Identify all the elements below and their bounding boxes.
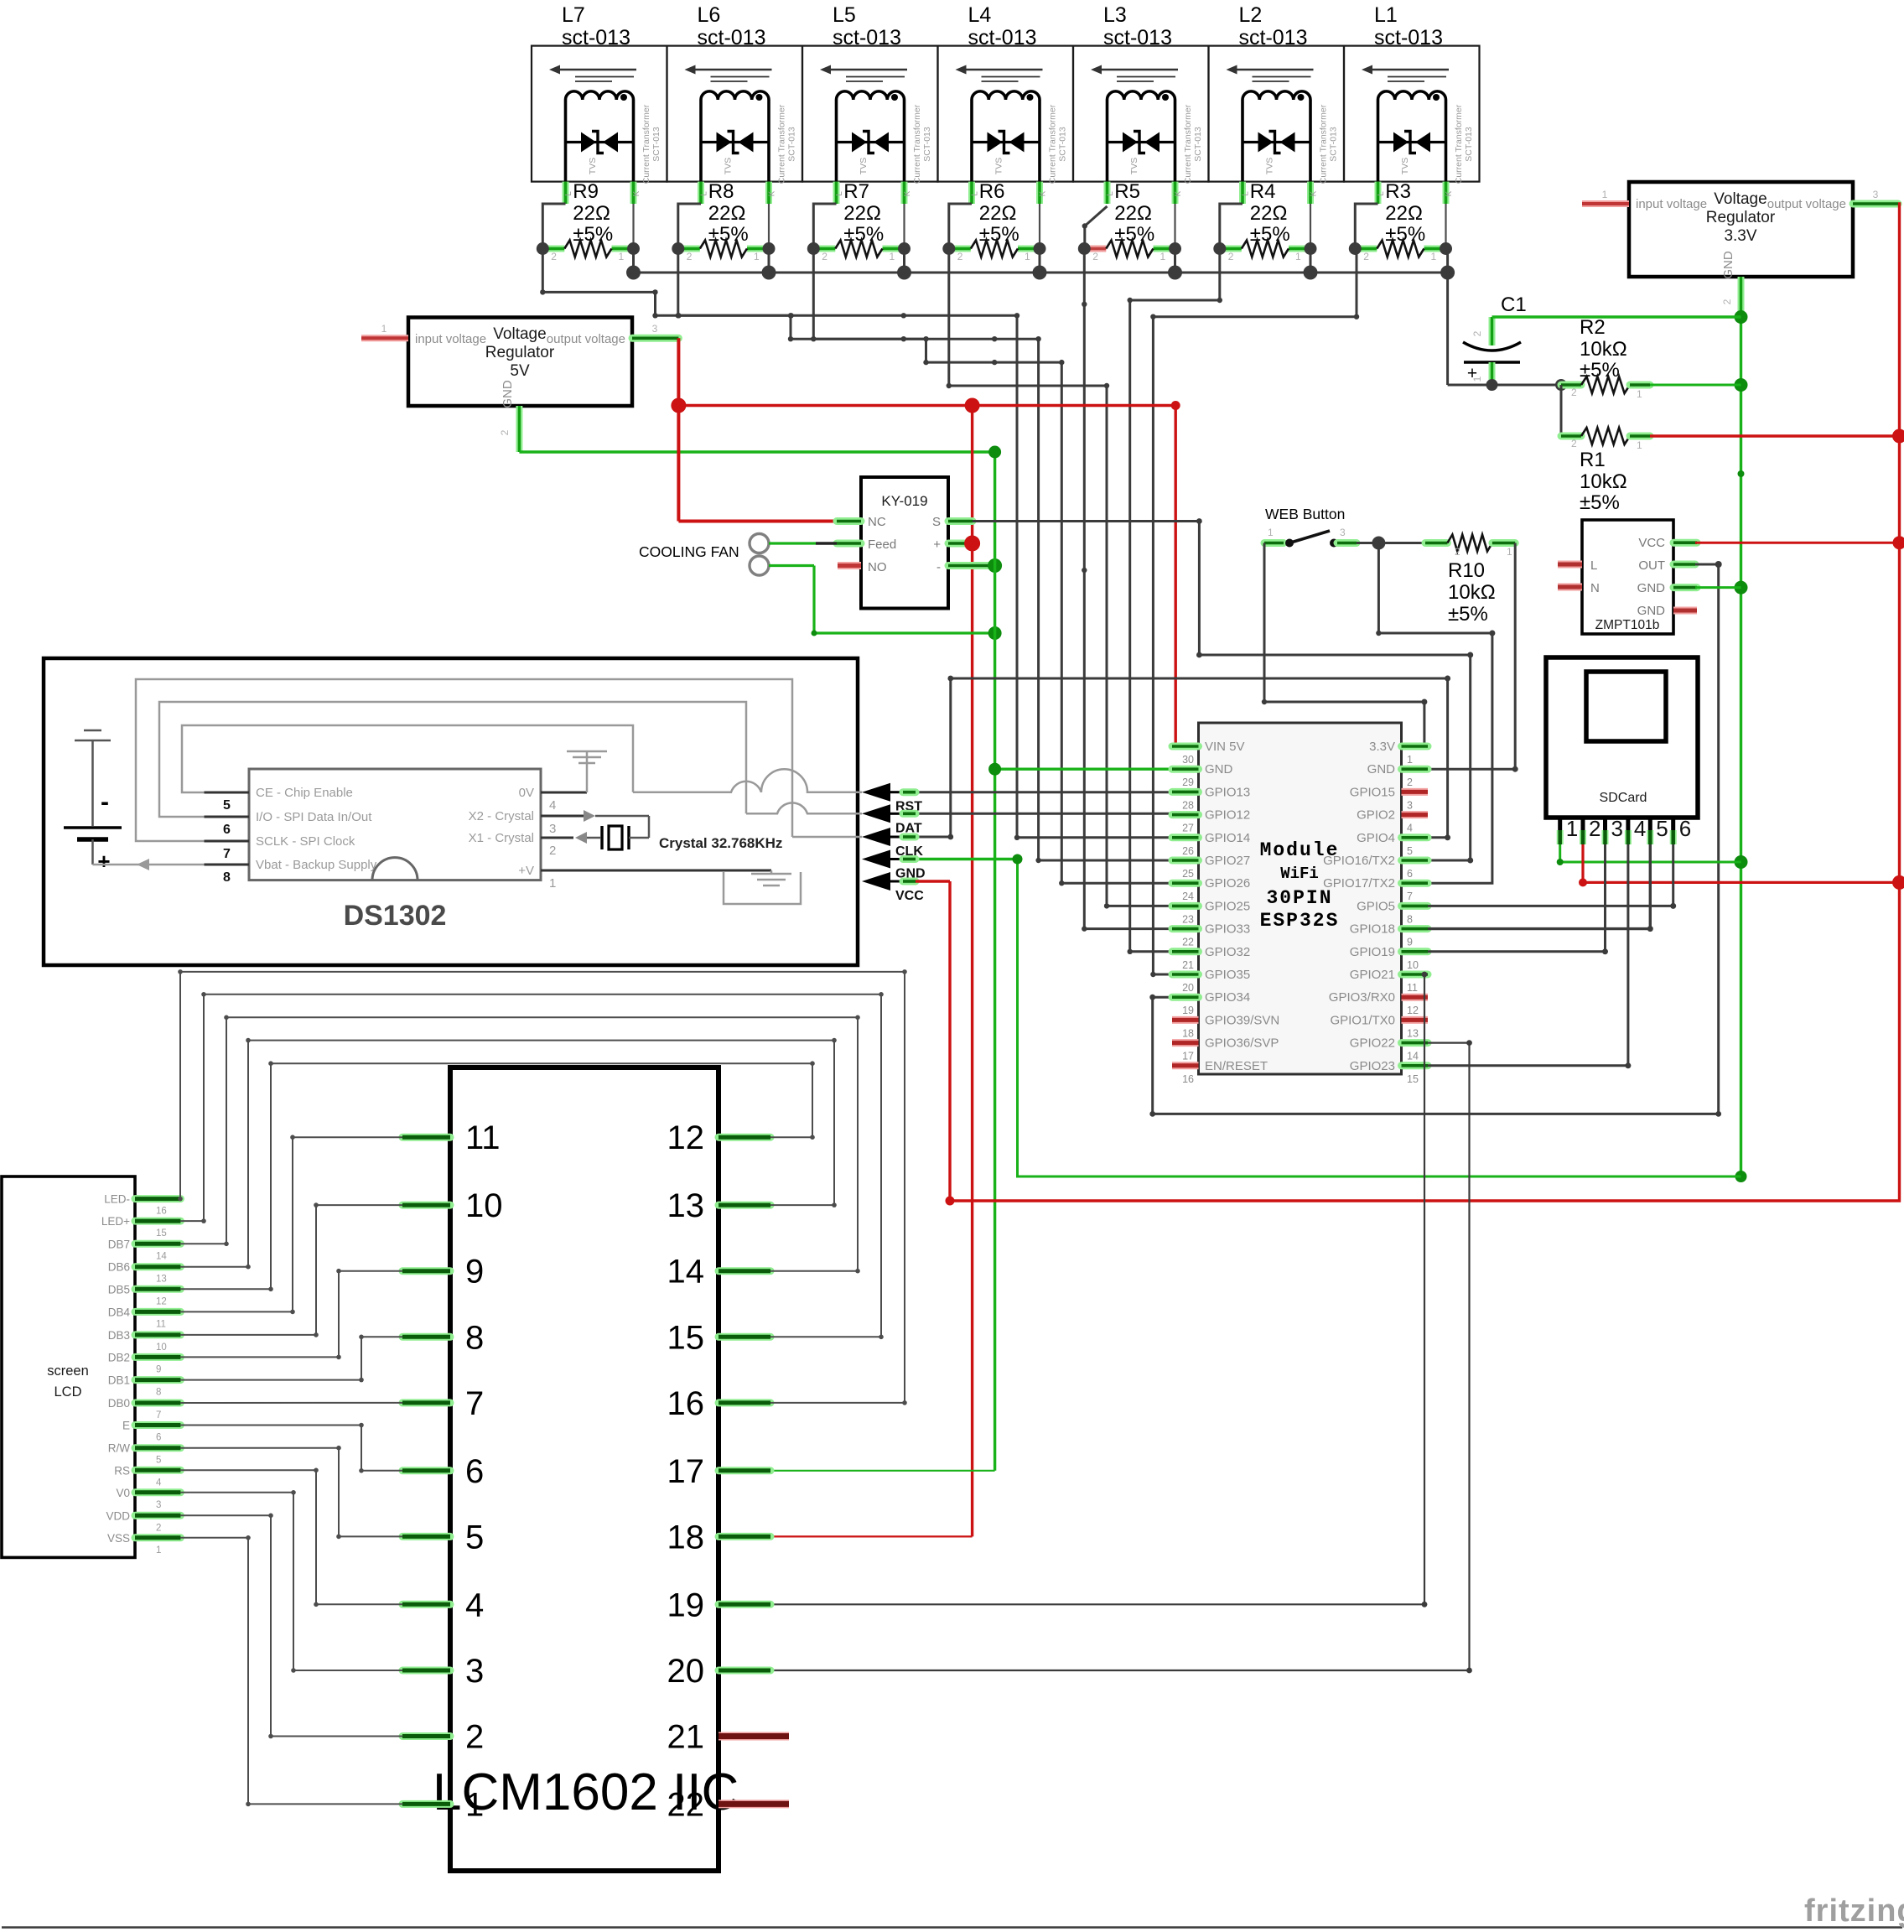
svg-text:10kΩ: 10kΩ — [1580, 338, 1627, 361]
svg-text:11: 11 — [465, 1119, 501, 1156]
svg-text:K: K — [632, 190, 641, 196]
svg-text:VIN 5V: VIN 5V — [1205, 740, 1245, 754]
pin L of L3 — [1104, 182, 1111, 204]
svg-text:screen: screen — [47, 1363, 89, 1379]
svg-text:22Ω: 22Ω — [843, 202, 881, 225]
wire R5 pin1 to K — [1174, 204, 1175, 249]
svg-text:SCLK - SPI Clock: SCLK - SPI Clock — [256, 834, 355, 849]
svg-text:1: 1 — [1025, 251, 1030, 262]
crystal Y1 32.768KHz — [575, 810, 782, 851]
svg-text:R8: R8 — [708, 180, 734, 203]
svg-text:10: 10 — [1407, 959, 1419, 971]
wire K bus (resistor pin1 common) — [634, 272, 1448, 274]
wire web button pin1 to ESP32 3.3V — [1264, 543, 1424, 749]
svg-text:Crystal 32.768KHz: Crystal 32.768KHz — [659, 835, 782, 851]
wire LED- to LCM16 — [180, 972, 905, 1403]
pin L of L7 — [563, 182, 569, 204]
current transformer L6 sct-013 — [667, 3, 803, 204]
svg-text:12: 12 — [667, 1119, 705, 1156]
wire red to LCM pin18 — [770, 1535, 973, 1537]
svg-text:GND: GND — [501, 380, 515, 408]
svg-text:Feed: Feed — [868, 538, 896, 552]
svg-text:4: 4 — [549, 798, 556, 813]
pin L of L2 — [1239, 182, 1246, 204]
svg-text:TVS: TVS — [1129, 158, 1139, 174]
wire VDD to LCM2 — [180, 1515, 402, 1736]
pin L of L1 — [1375, 182, 1382, 204]
pin K of L4 — [1036, 182, 1043, 204]
svg-text:Current Transformer: Current Transformer — [777, 104, 787, 184]
svg-text:19: 19 — [1182, 1005, 1194, 1016]
svg-text:GPIO33: GPIO33 — [1205, 922, 1250, 937]
svg-text:WEB Button: WEB Button — [1265, 506, 1345, 522]
switch WEB button — [1264, 527, 1357, 548]
svg-text:DB0: DB0 — [108, 1397, 130, 1410]
svg-text:VDD: VDD — [106, 1509, 130, 1522]
current transformer L5 sct-013 — [802, 3, 938, 204]
svg-text:K: K — [768, 190, 777, 196]
svg-text:TVS: TVS — [1265, 158, 1275, 174]
wire R6 pin2 to L — [949, 204, 972, 249]
svg-text:1: 1 — [1160, 251, 1166, 262]
svg-text:2: 2 — [1228, 251, 1234, 262]
pin 19 of LCM1602 — [719, 1601, 770, 1608]
svg-text:L5: L5 — [833, 3, 856, 27]
svg-text:6: 6 — [465, 1453, 484, 1490]
svg-text:GPIO15: GPIO15 — [1350, 785, 1395, 799]
svg-text:9: 9 — [465, 1254, 484, 1291]
svg-text:1: 1 — [1471, 376, 1483, 382]
svg-text:R9: R9 — [573, 180, 599, 203]
pin NC stub — [837, 517, 861, 525]
pin 11 GPIO21 of ESP32 — [1402, 971, 1429, 979]
pin 23 GPIO25 of ESP32 — [1172, 902, 1199, 910]
pin L of L4 — [968, 182, 975, 204]
svg-text:17: 17 — [667, 1453, 705, 1490]
svg-text:GND: GND — [1637, 581, 1666, 595]
junction red ZMPT VCC — [1893, 536, 1904, 549]
svg-text:2: 2 — [156, 1523, 161, 1533]
svg-text:4: 4 — [465, 1587, 484, 1623]
svg-text:3: 3 — [652, 323, 658, 335]
svg-text:1: 1 — [549, 876, 556, 891]
pin 14 of LCM1602 — [719, 1267, 770, 1275]
svg-text:GND: GND — [1721, 251, 1735, 279]
svg-text:CE - Chip Enable: CE - Chip Enable — [256, 786, 353, 800]
svg-text:4: 4 — [1407, 823, 1413, 834]
pin 1 VSS of LCD — [135, 1534, 180, 1541]
svg-text:Current Transformer: Current Transformer — [912, 104, 922, 184]
svg-text:Regulator: Regulator — [485, 344, 555, 361]
pin 3 output 3.3V reg — [1853, 200, 1898, 208]
pin S stub — [948, 517, 973, 525]
wire DB6 to LCM13 — [180, 1041, 834, 1267]
svg-text:1: 1 — [156, 1545, 161, 1555]
svg-text:8: 8 — [1407, 913, 1413, 925]
wire NC red to KY019 — [678, 520, 837, 523]
connector arrow VCC — [862, 872, 890, 891]
pin OUT stub — [1673, 561, 1695, 569]
svg-text:L7: L7 — [562, 3, 585, 27]
wire green to LCM pin17 — [770, 1470, 995, 1472]
ground symbol lower — [751, 870, 791, 885]
pin 6 of SDCard — [1671, 818, 1675, 840]
wire SD pin6 to GPIO5 — [1428, 844, 1673, 906]
svg-text:2: 2 — [549, 844, 556, 858]
svg-text:6: 6 — [1407, 868, 1413, 880]
pin 10 DB3 of LCD — [135, 1331, 180, 1338]
pin 2 of SDCard — [1581, 818, 1585, 840]
pin 7 SCLK of DS1302 — [205, 840, 250, 843]
gray wire IO to DAT with hop — [746, 802, 862, 813]
wire R2 pin2 down to R1 — [1560, 385, 1563, 436]
wire R6 pin1 to K — [1039, 204, 1040, 249]
svg-text:DB2: DB2 — [108, 1351, 130, 1363]
wire R9 pin2 to L — [542, 204, 565, 249]
wire KY S to GPIO16 — [973, 522, 1471, 861]
wire SD pin4 to GPIO23 — [1428, 844, 1628, 1066]
svg-text:COOLING FAN: COOLING FAN — [639, 543, 739, 560]
svg-text:12: 12 — [1407, 1005, 1419, 1016]
svg-text:GND: GND — [1637, 604, 1666, 618]
module SDCard — [1546, 657, 1698, 818]
svg-text:K: K — [1174, 190, 1183, 196]
svg-text:±5%: ±5% — [1448, 603, 1488, 626]
svg-text:SCT-013: SCT-013 — [787, 127, 797, 162]
pin 20 GPIO35 of ESP32 — [1172, 971, 1199, 979]
pin 16 LED- of LCD — [135, 1195, 180, 1202]
wire DB1 to LCM8 — [180, 1337, 402, 1379]
pin 14 DB7 of LCD — [135, 1240, 180, 1248]
wire L5 signal — [813, 249, 1198, 884]
svg-text:1: 1 — [754, 251, 760, 262]
svg-text:GPIO14: GPIO14 — [1205, 831, 1250, 845]
pin 19 GPIO34 of ESP32 — [1172, 994, 1199, 1001]
svg-text:11: 11 — [156, 1319, 166, 1329]
pin K of L6 — [765, 182, 772, 204]
svg-text:22Ω: 22Ω — [1114, 202, 1152, 225]
module WiFi ESP32S 30-pin U1 — [1199, 723, 1402, 1074]
connector arrow GND — [862, 850, 890, 869]
pin 3 GPIO15 of ESP32 — [1402, 788, 1429, 796]
junction green ZMPT GND — [1735, 581, 1748, 595]
svg-text:R1: R1 — [1580, 449, 1606, 471]
wire L2 signal — [1130, 249, 1220, 952]
wire DB2 to LCM9 — [180, 1271, 402, 1358]
svg-text:2: 2 — [465, 1719, 484, 1756]
svg-text:DB7: DB7 — [108, 1238, 130, 1250]
connector arrow RST — [862, 783, 890, 802]
pin 22 GPIO33 of ESP32 — [1172, 925, 1199, 932]
battery BT1 — [64, 730, 122, 874]
svg-text:15: 15 — [667, 1319, 705, 1356]
svg-text:TVS: TVS — [588, 158, 598, 174]
wire SD pin3 to GPIO19 — [1428, 844, 1606, 952]
svg-text:TVS: TVS — [859, 158, 869, 174]
pin 15 GPIO23 of ESP32 — [1402, 1062, 1429, 1069]
pin GND1 stub — [1673, 584, 1697, 591]
svg-text:7: 7 — [223, 847, 231, 861]
wire R10 pin1 to ESP32 GND2 — [1428, 543, 1515, 770]
svg-text:2: 2 — [822, 251, 827, 262]
pin 26 GPIO14 of ESP32 — [1172, 834, 1199, 841]
wire GND green vertical (KY to ESP32 GND29, LCM17) — [994, 452, 996, 1471]
svg-text:16: 16 — [667, 1385, 705, 1422]
svg-text:22: 22 — [1182, 937, 1194, 948]
svg-text:L4: L4 — [968, 3, 992, 27]
svg-text:2: 2 — [1571, 438, 1577, 449]
svg-text:20: 20 — [667, 1653, 705, 1690]
svg-text:22Ω: 22Ω — [979, 202, 1017, 225]
svg-text:SCT-013: SCT-013 — [1464, 127, 1474, 162]
svg-text:3: 3 — [1611, 816, 1623, 841]
pin VCC stub — [1673, 539, 1697, 547]
svg-text:-: - — [936, 560, 941, 574]
svg-text:L: L — [1590, 558, 1597, 573]
svg-text:3: 3 — [1873, 189, 1879, 200]
svg-text:3: 3 — [1407, 799, 1413, 811]
svg-text:13: 13 — [1407, 1027, 1419, 1039]
svg-text:1: 1 — [1295, 251, 1301, 262]
svg-text:ESP32S: ESP32S — [1260, 910, 1340, 932]
svg-text:GPIO32: GPIO32 — [1205, 945, 1250, 959]
current transformer L1 sct-013 — [1344, 3, 1480, 204]
current transformer L2 sct-013 — [1209, 3, 1345, 204]
wire 5V GND green to KY019 area — [519, 450, 994, 453]
wire E to LCM6 — [180, 1426, 402, 1471]
pin 18 of LCM1602 — [719, 1533, 770, 1540]
svg-text:9: 9 — [156, 1364, 161, 1374]
current transformer L3 sct-013 — [1073, 3, 1209, 204]
voltage regulator 5V U2 — [408, 318, 632, 408]
svg-text:I/O - SPI Data In/Out: I/O - SPI Data In/Out — [256, 810, 372, 824]
svg-text:R/W: R/W — [108, 1442, 131, 1455]
svg-text:GPIO26: GPIO26 — [1205, 876, 1250, 891]
pin 7 GPIO17/TX2 of ESP32 — [1402, 880, 1429, 887]
wire R3 pin1 to K — [1445, 204, 1446, 249]
svg-text:2: 2 — [687, 251, 693, 262]
pin K of L5 — [901, 182, 908, 204]
wire 5V output red down — [677, 338, 680, 521]
gray loop wire SCLK — [136, 679, 792, 841]
svg-text:VSS: VSS — [107, 1532, 130, 1545]
svg-text:R5: R5 — [1114, 180, 1140, 203]
resistor R5 22&#937; — [1078, 180, 1181, 262]
svg-text:3: 3 — [465, 1653, 484, 1690]
svg-text:GPIO27: GPIO27 — [1205, 854, 1250, 868]
pin 28 GPIO13 of ESP32 — [1172, 788, 1199, 796]
resistor R1 10k — [1561, 428, 1650, 514]
pin 1 input of 5V regulator (red stub) — [361, 335, 408, 341]
pin 12 of LCM1602 — [719, 1134, 770, 1141]
svg-text:EN/RESET: EN/RESET — [1205, 1059, 1268, 1073]
pin 11 DB4 of LCD — [135, 1308, 180, 1316]
pin 2 GND of 5V regulator — [516, 406, 522, 452]
svg-text:LCD: LCD — [54, 1384, 81, 1400]
pin 1 of LCM1602 — [402, 1800, 450, 1808]
svg-text:17: 17 — [1182, 1051, 1194, 1062]
svg-text:SCT-013: SCT-013 — [651, 127, 661, 162]
svg-text:2: 2 — [1455, 546, 1460, 558]
wire +5V to ESP32 VIN — [1174, 406, 1176, 749]
pin 9 GPIO18 of ESP32 — [1402, 925, 1429, 932]
pin 1 3.3V of ESP32 — [1402, 743, 1429, 750]
weave bendpoints — [676, 313, 681, 318]
pin 5 of SDCard — [1648, 818, 1652, 840]
svg-text:GPIO17/TX2: GPIO17/TX2 — [1323, 876, 1395, 891]
svg-text:14: 14 — [667, 1254, 705, 1291]
pin 27 GPIO12 of ESP32 — [1172, 811, 1199, 818]
pin 9 DB2 of LCD — [135, 1353, 180, 1361]
svg-text:2: 2 — [957, 251, 963, 262]
svg-text:R3: R3 — [1385, 180, 1411, 203]
gray loop wire IO — [159, 702, 746, 817]
svg-text:SCT-013: SCT-013 — [1329, 127, 1339, 162]
svg-text:0V: 0V — [519, 786, 534, 800]
resistor R6 22&#937; — [942, 180, 1045, 262]
svg-text:GPIO34: GPIO34 — [1205, 990, 1250, 1005]
pin 13 of LCM1602 — [719, 1202, 770, 1209]
svg-text:22: 22 — [667, 1786, 705, 1823]
svg-text:22Ω: 22Ω — [708, 202, 746, 225]
pin NO stub (red, unconnected) — [838, 562, 861, 569]
svg-text:10kΩ: 10kΩ — [1448, 581, 1496, 604]
svg-text:16: 16 — [156, 1207, 167, 1217]
svg-text:R2: R2 — [1580, 316, 1606, 339]
svg-text:2: 2 — [1571, 387, 1577, 398]
svg-text:GPIO1/TX0: GPIO1/TX0 — [1330, 1013, 1395, 1027]
wire R2 pin1 to GND bus — [1650, 384, 1741, 387]
pin 8 VBAT of DS1302 — [205, 864, 250, 866]
relay module KY-019 — [861, 477, 948, 609]
svg-text:-: - — [101, 788, 109, 816]
svg-text:21: 21 — [667, 1719, 705, 1756]
svg-text:6: 6 — [223, 823, 231, 837]
wire DB5 to LCM12 — [180, 1063, 812, 1289]
svg-text:TVS: TVS — [994, 158, 1004, 174]
wire SD pin1 green to GND bus — [1560, 844, 1741, 862]
wire CLK to GPIO4 via top bus — [903, 678, 1448, 838]
wire fan NO loop to GND — [769, 564, 814, 567]
wire +V loop lower — [724, 872, 801, 904]
wire R7 pin1 to K — [903, 204, 905, 249]
svg-text:K: K — [1310, 190, 1319, 196]
wire GND29 branch — [995, 768, 1172, 771]
current transformer L4 sct-013 — [938, 3, 1074, 204]
svg-text:27: 27 — [1182, 823, 1194, 834]
wire R/W to LCM5 — [180, 1448, 402, 1537]
svg-text:DS1302: DS1302 — [344, 900, 447, 932]
svg-text:DB6: DB6 — [108, 1261, 130, 1274]
svg-text:E: E — [122, 1420, 130, 1432]
svg-text:2: 2 — [1363, 251, 1369, 262]
resistor R9 22&#937; — [537, 180, 640, 262]
svg-text:L2: L2 — [1239, 3, 1263, 27]
svg-text:fritzing: fritzing — [1804, 1893, 1904, 1929]
svg-text:L1: L1 — [1374, 3, 1398, 27]
junction + to 5V bus — [964, 536, 980, 552]
svg-text:WiFi: WiFi — [1280, 865, 1319, 883]
svg-text:1: 1 — [1637, 439, 1642, 451]
pin 1 input 3.3V reg (red stub) — [1582, 200, 1629, 207]
svg-text:5: 5 — [156, 1456, 161, 1466]
svg-text:GPIO13: GPIO13 — [1205, 785, 1250, 799]
pin 17 GPIO36/SVP of ESP32 — [1172, 1039, 1199, 1046]
pin 24 GPIO26 of ESP32 — [1172, 880, 1199, 887]
svg-text:GPIO35: GPIO35 — [1205, 968, 1250, 982]
svg-text:8: 8 — [465, 1319, 484, 1356]
wire +5V bus horizontal — [678, 404, 1175, 407]
pin 3 V0 of LCD — [135, 1488, 180, 1496]
svg-text:GPIO21: GPIO21 — [1350, 968, 1395, 982]
svg-text:1: 1 — [1431, 251, 1437, 262]
pin 25 GPIO27 of ESP32 — [1172, 857, 1199, 865]
junction green DS GND wire — [1735, 1171, 1747, 1182]
wire bottom ground run — [2, 1926, 1902, 1929]
svg-text:16: 16 — [1182, 1073, 1194, 1085]
svg-text:C1: C1 — [1501, 293, 1527, 316]
pin 21 of LCM1602 — [719, 1732, 789, 1741]
wire button to R10 junction — [1357, 542, 1378, 544]
gray wire CE to RST with hops — [633, 769, 862, 792]
svg-text:KY-019: KY-019 — [881, 493, 927, 509]
pin L of L6 — [698, 182, 704, 204]
wire VCC red stub — [903, 878, 916, 885]
svg-text:GPIO5: GPIO5 — [1357, 899, 1395, 913]
svg-text:DB5: DB5 — [108, 1283, 130, 1296]
svg-text:NC: NC — [868, 515, 886, 529]
pin 11 of LCM1602 — [402, 1134, 450, 1141]
pin N stub (red) — [1558, 584, 1582, 591]
wire L3 signal — [1084, 249, 1198, 929]
pin 3 of SDCard — [1603, 818, 1607, 840]
svg-text:14: 14 — [1407, 1051, 1419, 1062]
svg-text:K: K — [903, 190, 912, 196]
svg-text:24: 24 — [1182, 891, 1194, 902]
pin 7 of LCM1602 — [402, 1399, 450, 1406]
svg-text:+V: +V — [518, 864, 534, 878]
svg-text:DB4: DB4 — [108, 1306, 131, 1318]
resistor R8 22&#937; — [672, 180, 775, 262]
junction red SD pin2 — [1892, 875, 1904, 890]
svg-text:10kΩ: 10kΩ — [1580, 470, 1627, 493]
svg-text:29: 29 — [1182, 776, 1194, 788]
svg-text:VCC: VCC — [895, 889, 924, 903]
pin 5 CE of DS1302 — [205, 792, 250, 794]
svg-text:Voltage: Voltage — [1714, 190, 1767, 208]
svg-text:NO: NO — [868, 560, 887, 574]
svg-text:2: 2 — [1589, 816, 1601, 841]
pin K of L1 — [1443, 182, 1450, 204]
svg-text:2: 2 — [1092, 251, 1098, 262]
svg-text:X2 - Crystal: X2 - Crystal — [469, 809, 534, 823]
svg-text:3: 3 — [156, 1500, 161, 1510]
svg-text:6: 6 — [156, 1433, 161, 1443]
svg-text:TVS: TVS — [724, 158, 734, 174]
wire DB7 to LCM14 — [180, 1017, 858, 1270]
svg-text:5: 5 — [1407, 845, 1413, 857]
pin + stub — [948, 540, 973, 548]
wire L7 signal — [542, 249, 1198, 838]
svg-text:GPIO12: GPIO12 — [1205, 808, 1250, 823]
wire R8 pin2 to L — [678, 204, 701, 249]
wire R5 pin2 to L — [1085, 206, 1108, 249]
svg-text:26: 26 — [1182, 845, 1194, 857]
pin 3 of LCM1602 — [402, 1667, 450, 1675]
svg-text:5: 5 — [465, 1519, 484, 1555]
svg-text:8: 8 — [156, 1388, 161, 1398]
voltage sensor ZMPT101b — [1582, 520, 1673, 634]
